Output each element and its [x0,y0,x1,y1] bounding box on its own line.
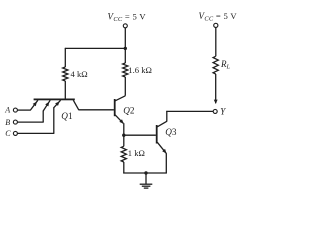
wire Q1 collector to Q2 base [78,109,114,111]
transistor Q3 emitter lead with arrow [157,142,166,153]
transistor Q1 base bar [34,99,75,101]
transistor Q2 base bar [114,99,116,116]
label 1 kOhm [128,148,145,158]
label A [4,106,10,115]
label 4 kOhm [71,69,88,79]
wire ground rail (1k bottom to Q3 emitter) [123,172,167,174]
svg-text:B: B [5,118,10,127]
wire 1k resistor bottom to ground rail [123,162,125,174]
wire RL bottom to output Y with current arrow [214,74,218,104]
svg-text:1 kΩ: 1 kΩ [128,148,145,158]
wire Q2 emitter node to Q3 base [124,134,156,136]
svg-text:Q1: Q1 [61,111,73,121]
svg-text:Q2: Q2 [123,105,135,115]
input terminal B [13,120,17,124]
wire Q3 collector to output Y [166,110,213,112]
svg-text:4 kΩ: 4 kΩ [71,69,88,79]
transistor Q3 collector lead [157,111,167,127]
transistor Q2 collector lead [115,96,125,101]
label Q3 [165,127,177,137]
transistor Q1 emitter 1 (input A) [31,100,38,110]
svg-text:A: A [4,106,10,115]
resistor RL (pull-up load) [213,56,218,74]
label Q1 [61,111,73,121]
wire input B to Q1 emitter 2 [18,121,44,123]
wire Q2 emitter down to node [123,123,125,146]
node junction of 4k branch with VCC rail [124,47,127,50]
transistor Q1 collector lead [73,100,78,110]
label Q2 [123,105,135,115]
resistor R 4 kOhm (base resistor of Q1) [63,67,68,81]
node junction Q2 emitter / 1k / Q3 base [122,134,125,137]
power terminal VCC (left supply) [123,24,127,28]
resistor R 1 kOhm (Q3 base pulldown) [121,146,126,162]
wire input C to Q1 emitter 3 [18,132,55,134]
ground symbol [140,173,153,188]
wire 4k resistor bottom to Q1 base bar [64,81,66,99]
transistor Q1 emitter 2 (input B) [43,100,50,122]
label Y [220,107,226,117]
svg-text:C: C [5,129,11,138]
wire 1.6k resistor bottom to Q2 collector [124,77,126,96]
wire horizontal from 4k resistor top to VCC rail [65,48,125,67]
output terminal Y [213,109,217,113]
label VCC = 5 V (left) [108,11,147,23]
wire Q3 emitter down to ground rail [165,153,167,173]
label B [5,118,10,127]
label RL [220,59,231,71]
wire input A to Q1 emitter 1 [18,109,31,111]
label C [5,129,11,138]
label 1.6 kOhm [128,65,152,75]
svg-text:1.6 kΩ: 1.6 kΩ [128,65,152,75]
wire VCC-right down to RL [215,28,217,57]
input terminal A [13,108,17,112]
svg-text:Q3: Q3 [165,127,177,137]
label VCC = 5 V (right) [199,11,238,23]
power terminal VCC (right supply) [214,23,218,27]
input terminal C [13,131,17,135]
node junction ground rail [144,171,147,174]
wire VCC-left vertical down to junction and 1.6k resistor [124,28,126,63]
transistor Q3 base bar [156,125,158,144]
transistor Q1 emitter 3 (input C) [54,100,61,133]
transistor Q2 emitter lead with arrow [115,115,124,124]
resistor R 1.6 kOhm (collector resistor of Q2) [123,63,128,77]
